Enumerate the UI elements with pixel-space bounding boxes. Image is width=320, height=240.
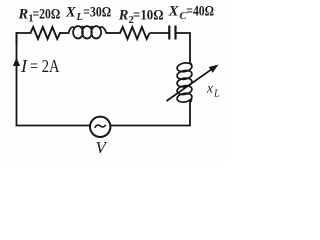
wire between R2 and XC	[151, 32, 169, 34]
label XL=30ohm	[65, 5, 111, 23]
wire top-left horizontal	[17, 33, 31, 44]
svg-text:L: L	[76, 12, 83, 23]
resistor R2	[120, 27, 150, 39]
svg-text:x: x	[206, 81, 213, 96]
svg-text:X: X	[168, 4, 179, 20]
svg-text:V: V	[96, 138, 109, 157]
svg-text:R: R	[118, 8, 129, 24]
svg-text:I: I	[20, 56, 28, 76]
svg-text:L: L	[213, 89, 220, 100]
svg-text:=20Ω: =20Ω	[33, 6, 61, 22]
label XC=40ohm	[168, 4, 214, 22]
svg-text:R: R	[18, 6, 29, 22]
capacitor XC	[169, 26, 175, 40]
wire between XL and R2	[107, 32, 121, 34]
variable inductor xL (vertical coil)	[176, 62, 192, 103]
wire bottom-left from source to corner and up left side	[17, 33, 90, 126]
inductor XL (3 loops)	[69, 26, 107, 38]
arrow through inductor	[167, 70, 212, 101]
wire right below variable inductor	[110, 102, 190, 126]
svg-text:=30Ω: =30Ω	[83, 5, 111, 21]
wire XC to top-right corner and down	[176, 33, 190, 63]
AC source V	[90, 117, 110, 137]
svg-text:= 2A: = 2A	[30, 56, 60, 76]
resistor R1	[31, 27, 61, 39]
label R1=20ohm	[18, 6, 61, 24]
svg-text:=40Ω: =40Ω	[186, 4, 214, 20]
current arrow I	[13, 58, 20, 67]
label xL	[206, 81, 220, 100]
label R2=10ohm	[118, 8, 164, 26]
wire between R1 and XL	[60, 32, 69, 34]
svg-text:X: X	[65, 5, 76, 21]
svg-text:=10Ω: =10Ω	[133, 8, 164, 24]
